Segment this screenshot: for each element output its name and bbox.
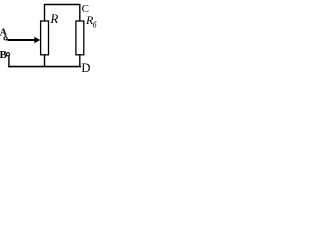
wire bottom lead of Rb (79, 55, 81, 67)
svg-text:R: R (49, 11, 58, 26)
svg-text:Rб: Rб (85, 13, 98, 29)
terminal circle A (4, 37, 7, 40)
resistor Rb body (76, 21, 84, 55)
svg-text:A: A (0, 28, 8, 39)
wire right vertical lead from node C to resistor (79, 4, 81, 22)
wire vertical from terminal B down to bottom wire (8, 55, 10, 67)
wire top horizontal C to above R (44, 4, 80, 6)
wire wiper arm from A (7, 39, 35, 41)
svg-text:D: D (81, 61, 90, 75)
terminal circle B (6, 53, 9, 56)
svg-text:B: B (0, 49, 8, 61)
potentiometer R body (41, 21, 49, 55)
wiper arrowhead into R (34, 37, 40, 44)
wire bottom lead of R (44, 55, 46, 67)
wire left vertical lead from top wire to potentiometer R (44, 4, 46, 22)
wire bottom horizontal from B to node D (8, 66, 81, 68)
